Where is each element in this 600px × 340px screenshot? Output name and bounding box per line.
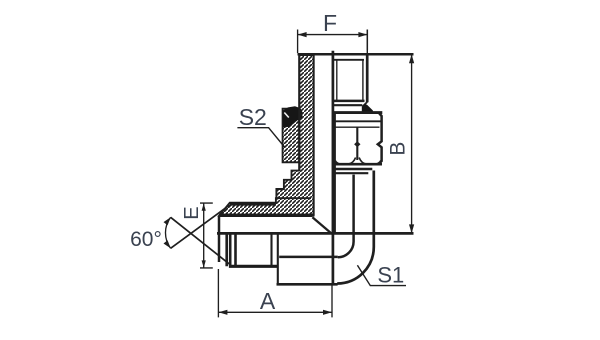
nut hex mid line — [356, 127, 358, 160]
elbow outer corner chamfer — [312, 217, 331, 233]
dimension E arrows — [202, 203, 206, 268]
nut bottom chamfer arcs — [335, 158, 381, 165]
dimension A line — [218, 311, 332, 313]
cone line lower (60 deg) — [171, 217, 230, 264]
svg-text:S1: S1 — [377, 263, 404, 288]
stud inner thread line left — [336, 60, 338, 100]
svg-text:F: F — [323, 10, 337, 36]
washer right black wedge — [362, 104, 373, 112]
stud right edge — [366, 53, 369, 102]
thread runout lines near cone — [227, 234, 236, 266]
F right extension upper — [366, 30, 368, 54]
top face line — [298, 53, 414, 56]
angle dimension arc — [165, 217, 170, 248]
svg-text:E: E — [181, 206, 203, 219]
svg-text:A: A — [260, 288, 276, 314]
thread dark strip on branch top band — [230, 202, 276, 206]
stud bottom line 2 — [334, 104, 363, 106]
dimension B arrows — [409, 54, 414, 233]
dimension A extension lines — [218, 269, 332, 317]
stud inner thread line right — [362, 60, 364, 100]
wall right edge — [313, 55, 315, 216]
svg-text:S2: S2 — [239, 104, 267, 130]
svg-text:B: B — [387, 142, 410, 156]
dimension A arrows — [218, 310, 332, 315]
body section bottom thick edge — [219, 214, 313, 217]
branch bottom thread edge — [229, 265, 277, 268]
hex front lower vertical — [277, 233, 279, 284]
nut right edge with notch — [378, 113, 382, 165]
angle arc arrowheads — [164, 217, 171, 248]
thread runout line near hex — [270, 233, 272, 266]
nut bottom face — [334, 163, 382, 166]
tube right vertical with outer bend arc — [337, 171, 374, 284]
tube mid vertical with inner bend arc — [338, 175, 354, 258]
leader S2 — [237, 128, 285, 148]
wall left edge — [298, 55, 300, 171]
leader S1 — [357, 265, 406, 285]
nut hex mid diamond — [354, 141, 360, 147]
svg-text:60°: 60° — [130, 228, 162, 251]
flange line 2 under nut — [334, 172, 368, 174]
dimension B line — [411, 54, 413, 233]
locknut S2 left half section (hatched block) — [283, 109, 300, 163]
dimension E line — [203, 203, 205, 268]
body bottom face — [277, 283, 338, 286]
nut chamfer line 1 — [334, 120, 381, 122]
body lower hex flat line — [279, 256, 338, 259]
stud / bore left vertical line — [332, 51, 335, 284]
stud bottom line 1 — [334, 100, 365, 103]
nut top face — [334, 111, 382, 114]
dimension F extension lines — [298, 30, 368, 54]
cone line upper (60 deg) — [171, 205, 230, 248]
dimension F arrows — [298, 32, 368, 37]
stud right bottom chamfer — [363, 102, 368, 107]
branch front face — [218, 216, 221, 263]
centerline / B bottom extension line — [217, 232, 414, 235]
dimension E ticks — [200, 203, 213, 268]
flange line 1 under nut — [334, 168, 372, 171]
dimension F line — [298, 34, 368, 36]
washer highlight slit — [284, 113, 289, 118]
nut and tube left edge — [334, 113, 336, 233]
hatched elbow body section (wall, staircase hex, thread band) — [219, 55, 313, 216]
stud top chamfer line — [333, 59, 364, 61]
nut chamfer line 2 — [334, 126, 380, 128]
bonded seal washer (solid black blob) — [283, 106, 302, 127]
body hex top internal edge — [276, 197, 311, 199]
